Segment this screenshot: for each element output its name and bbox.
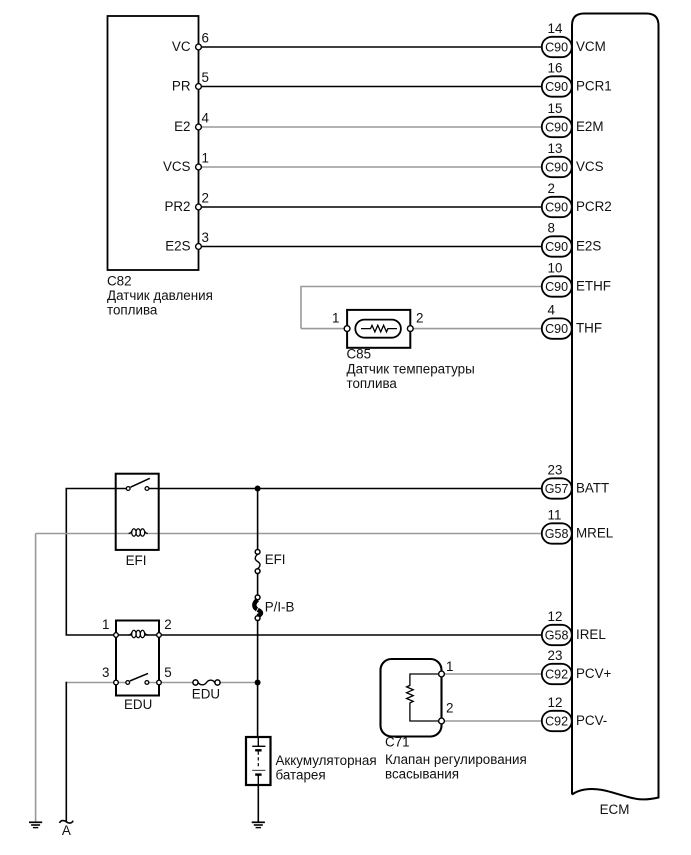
battery internals [252, 737, 265, 785]
svg-text:12: 12 [548, 695, 563, 710]
wire IREL [159, 634, 542, 636]
junction dot BATT [255, 486, 261, 492]
connector oval G58 IREL [542, 609, 606, 645]
svg-text:3: 3 [202, 230, 209, 245]
wire PCV- [442, 720, 542, 722]
battery box [246, 737, 271, 785]
svg-text:PR: PR [172, 78, 191, 93]
wire left gray vertical to ground [35, 534, 37, 822]
svg-text:2: 2 [548, 181, 555, 196]
wire P/I-B to battery junction [257, 620, 259, 682]
svg-text:P/I-B: P/I-B [265, 600, 295, 615]
connector oval C90 E2M [542, 101, 604, 137]
wire E2 to E2M [201, 126, 541, 128]
wire junction to battery [257, 683, 259, 738]
svg-text:C90: C90 [545, 200, 568, 214]
fuse EFI [255, 550, 260, 574]
C82 pin numbers [202, 31, 210, 246]
wire C85 pin2 to THF [412, 328, 542, 330]
C82 label [107, 274, 213, 318]
svg-text:Аккумуляторная: Аккумуляторная [276, 753, 377, 768]
wire battery to ground [257, 785, 259, 822]
svg-text:PCV+: PCV+ [576, 666, 612, 681]
svg-text:C92: C92 [545, 714, 568, 728]
EDU relay coil [129, 630, 148, 637]
connector C82 (fuel pressure sensor) box [108, 16, 199, 270]
svg-text:Клапан регулирования: Клапан регулирования [385, 752, 527, 767]
EDU relay switch blade [130, 673, 148, 681]
connector oval C92 PCV- [542, 695, 607, 731]
wire ETHF [301, 287, 542, 329]
wire EFI relay switch left to vertical [66, 489, 116, 636]
C71 pin 1 circle [439, 671, 445, 677]
svg-text:G58: G58 [545, 527, 569, 541]
svg-text:12: 12 [548, 609, 563, 624]
relay EDU box [116, 621, 159, 696]
wire EFI fuse to P/I-B fuse [257, 573, 259, 595]
svg-text:G58: G58 [545, 628, 569, 642]
svg-text:PCR1: PCR1 [576, 78, 612, 93]
svg-text:C85: C85 [347, 347, 372, 362]
battery label [276, 753, 377, 783]
wire EDU fuse to junction [220, 682, 258, 684]
svg-text:ECM: ECM [600, 802, 630, 817]
svg-text:VCS: VCS [163, 159, 191, 174]
connector oval C90 PCR1 [542, 61, 612, 97]
svg-text:PCV-: PCV- [576, 713, 607, 728]
svg-text:VC: VC [172, 39, 191, 54]
svg-text:2: 2 [164, 617, 171, 632]
svg-text:A: A [62, 823, 71, 838]
svg-text:C82: C82 [107, 274, 132, 289]
svg-text:2: 2 [202, 191, 209, 206]
svg-text:3: 3 [102, 665, 109, 680]
svg-text:THF: THF [576, 321, 602, 336]
wire EDU pin5 to fuse [159, 682, 193, 684]
wire BATT [159, 488, 542, 490]
connector oval G57 BATT [542, 463, 609, 499]
connector oval C90 PCR2 [542, 181, 612, 217]
C71 pin 2 circle [439, 718, 445, 724]
svg-text:16: 16 [548, 61, 563, 76]
connector oval C90 ETHF [542, 261, 611, 297]
svg-text:C92: C92 [545, 667, 568, 681]
connector oval G58 MREL [542, 508, 613, 544]
svg-text:C90: C90 [545, 40, 568, 54]
valve C71 (suction control valve) box [381, 659, 442, 737]
svg-text:13: 13 [548, 141, 563, 156]
svg-text:всасывания: всасывания [385, 767, 459, 782]
off-page connector A squiggle [60, 821, 74, 824]
svg-text:15: 15 [548, 101, 563, 116]
svg-text:BATT: BATT [576, 480, 609, 495]
svg-text:C71: C71 [385, 735, 410, 750]
svg-text:PCR2: PCR2 [576, 199, 612, 214]
connector oval C92 PCV+ [542, 648, 612, 684]
svg-text:4: 4 [202, 111, 210, 126]
svg-text:E2S: E2S [576, 238, 601, 253]
svg-text:C90: C90 [545, 80, 568, 94]
svg-text:MREL: MREL [576, 525, 613, 540]
fuse EDU [193, 680, 220, 685]
svg-text:EDU: EDU [192, 687, 220, 702]
C85 pin 2 circle [407, 326, 413, 332]
svg-text:5: 5 [164, 665, 171, 680]
svg-text:VCM: VCM [576, 39, 606, 54]
EFI relay coil [129, 529, 148, 536]
svg-text:C90: C90 [545, 160, 568, 174]
ground (battery) [252, 822, 265, 827]
svg-text:14: 14 [548, 21, 563, 36]
ground (left, MREL) [29, 822, 42, 827]
EDU relay switch stubs [116, 682, 128, 684]
C82 pin circles [196, 44, 202, 249]
svg-text:Датчик температуры: Датчик температуры [347, 362, 475, 377]
fusible link P/I-B [254, 595, 261, 620]
C85 pin 1 circle [344, 326, 350, 332]
sensor C85 (fuel temperature sensor) box [347, 310, 410, 348]
svg-text:6: 6 [202, 31, 209, 46]
svg-text:5: 5 [202, 70, 209, 85]
C71 label [385, 735, 527, 782]
svg-text:топлива: топлива [347, 376, 398, 391]
EDU relay coil wire [116, 634, 132, 636]
wire C85 pin1 lead [301, 328, 344, 330]
wire MREL (through EFI coil) [36, 533, 132, 535]
svg-text:11: 11 [548, 508, 562, 523]
C85 label [347, 347, 475, 392]
wire EDU pin3 to left [66, 682, 116, 684]
svg-text:EDU: EDU [124, 697, 152, 712]
connector oval C90 VCS [542, 141, 604, 177]
connector oval C90 VCM [542, 21, 606, 57]
svg-text:23: 23 [548, 648, 563, 663]
svg-text:EFI: EFI [265, 552, 286, 567]
wire VC to VCM [201, 46, 541, 48]
svg-text:C90: C90 [545, 240, 568, 254]
C82 pin labels [163, 39, 191, 254]
EFI relay switch contacts [126, 487, 130, 491]
junction dot battery [255, 680, 261, 686]
svg-text:Датчик давления: Датчик давления [107, 288, 213, 303]
EDU relay switch contacts [126, 681, 130, 685]
connector oval C90 THF [542, 303, 602, 339]
svg-text:2: 2 [446, 701, 453, 716]
wire down to connector A [65, 682, 67, 822]
EFI relay switch stubs [116, 488, 129, 490]
wire PCV+ [442, 673, 542, 675]
svg-text:E2S: E2S [165, 238, 190, 253]
wire VCS to VCS [201, 166, 541, 168]
relay EFI box [116, 474, 159, 550]
svg-text:ETHF: ETHF [576, 278, 611, 293]
svg-text:E2: E2 [174, 119, 190, 134]
svg-text:батарея: батарея [276, 768, 326, 783]
svg-text:EFI: EFI [126, 553, 147, 568]
svg-text:1: 1 [332, 311, 339, 326]
svg-text:топлива: топлива [107, 303, 158, 318]
svg-text:10: 10 [548, 261, 563, 276]
svg-text:VCS: VCS [576, 159, 604, 174]
wire PR2 to PCR2 [201, 206, 541, 208]
svg-text:1: 1 [446, 659, 453, 674]
svg-text:1: 1 [202, 151, 209, 166]
svg-text:PR2: PR2 [164, 199, 190, 214]
svg-text:4: 4 [548, 303, 556, 318]
svg-text:C90: C90 [545, 120, 568, 134]
EDU relay pin numbers [102, 617, 172, 680]
svg-text:G57: G57 [545, 482, 569, 496]
C71 internal resistor [407, 674, 442, 721]
connector oval C90 E2S [542, 221, 602, 257]
C85 thermistor oval [355, 320, 401, 338]
svg-text:23: 23 [548, 463, 563, 478]
ECM box [572, 14, 659, 800]
svg-text:IREL: IREL [576, 627, 606, 642]
wire PR to PCR1 [201, 86, 541, 88]
C85 resistor zigzag [361, 325, 397, 332]
wire junction to EFI fuse [257, 489, 259, 550]
EFI relay switch blade [131, 478, 150, 487]
svg-text:E2M: E2M [576, 119, 604, 134]
wire E2S to E2S [201, 246, 541, 248]
EDU relay pin circles [114, 633, 162, 685]
svg-text:1: 1 [102, 617, 109, 632]
svg-text:C90: C90 [545, 280, 568, 294]
svg-text:8: 8 [548, 221, 555, 236]
svg-text:2: 2 [416, 311, 423, 326]
svg-text:C90: C90 [545, 322, 568, 336]
